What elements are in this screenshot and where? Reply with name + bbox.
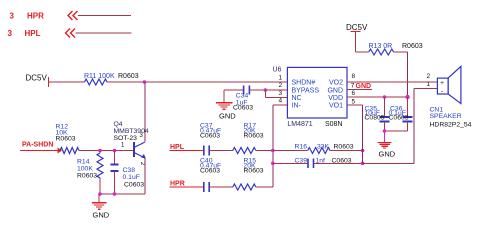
resistor R11 100K: [84, 73, 139, 85]
wire IN- to U6 pin4: [273, 104, 288, 106]
svg-text:5: 5: [352, 99, 356, 106]
svg-text:HPL: HPL: [170, 144, 185, 151]
capacitor C36 0.1uF: [389, 97, 413, 131]
U6 pin numbers: [279, 73, 356, 105]
svg-text:DC5V: DC5V: [346, 23, 368, 32]
svg-text:C0603: C0603: [124, 181, 144, 188]
power port DC5V (top): [346, 23, 368, 32]
resistor R17 20K: [233, 122, 264, 153]
ground under C34: [216, 90, 237, 121]
svg-text:3: 3: [279, 90, 283, 97]
wire R16 left: [273, 150, 308, 152]
capacitor C40 0.47uF: [200, 157, 221, 192]
svg-text:6: 6: [352, 90, 356, 97]
wire speaker pin1 up: [413, 89, 415, 164]
svg-text:C0603: C0603: [200, 167, 220, 174]
svg-text:R0603: R0603: [56, 136, 76, 143]
svg-text:1: 1: [279, 75, 283, 82]
svg-text:BYPASS: BYPASS: [292, 87, 320, 94]
port HPR: [10, 11, 132, 21]
transistor Q4 MMBT3904: [114, 121, 149, 166]
wire R15 to IN- node: [256, 186, 273, 188]
junction C39/VO1: [361, 162, 365, 166]
svg-text:U6: U6: [273, 67, 282, 74]
wire IN- vertical node: [272, 105, 274, 187]
wire BYPASS to U6 pin2: [265, 89, 287, 91]
svg-text:C38: C38: [123, 167, 136, 174]
svg-text:R0603: R0603: [77, 172, 97, 179]
wire to U6 pin3: [265, 96, 287, 98]
wire DC5V to R11: [49, 81, 85, 83]
speaker CN1: [427, 66, 472, 128]
resistor R12 10K: [56, 123, 80, 153]
wire cap bottoms: [385, 130, 408, 132]
wire VO2 pin8 to speaker pin2: [347, 81, 437, 83]
svg-text:SOT-23: SOT-23: [114, 135, 138, 142]
svg-text:R0603: R0603: [244, 167, 264, 174]
svg-text:R11 100K: R11 100K: [84, 73, 115, 80]
svg-text:C0603: C0603: [389, 115, 409, 122]
wire R12 to Q4 base: [79, 150, 133, 152]
port HPL: [8, 29, 132, 39]
wire Q4 collector up to SHDN net: [144, 82, 146, 142]
svg-text:PA-SHDN: PA-SHDN: [22, 142, 53, 149]
junction R16/VO1: [361, 149, 365, 153]
svg-text:C0603: C0603: [332, 158, 352, 165]
ground under C35/C36: [378, 131, 396, 159]
junction C35 top: [383, 95, 387, 99]
wire VO1 pin5: [347, 104, 363, 106]
svg-text:SPEAKER: SPEAKER: [430, 113, 462, 120]
wire VDD pin6 row: [347, 96, 408, 98]
svg-text:3: 3: [10, 12, 15, 21]
wire Q4 emitter down: [144, 158, 146, 194]
svg-text:VO2: VO2: [329, 80, 343, 87]
svg-text:1: 1: [427, 81, 431, 88]
junction R14 bottom: [98, 192, 102, 196]
wire PA-SHDN to R12: [20, 150, 60, 152]
svg-text:C0603: C0603: [200, 132, 220, 139]
svg-text:7: 7: [351, 83, 355, 90]
resistor R14 100K (vertical): [77, 151, 103, 195]
wire to speaker pin1: [414, 88, 437, 90]
ground under R14: [92, 194, 110, 219]
svg-text:C0805: C0805: [365, 115, 385, 122]
svg-text:R0603: R0603: [402, 43, 423, 50]
svg-text:0.1uF: 0.1uF: [123, 174, 140, 181]
svg-text:GND: GND: [93, 210, 110, 219]
junction IN-/C39: [271, 162, 275, 166]
svg-text:4: 4: [279, 97, 283, 104]
capacitor C35 10uF: [365, 97, 390, 131]
svg-text:MMBT3904: MMBT3904: [114, 128, 149, 135]
svg-text:GND: GND: [379, 150, 396, 159]
svg-text:2: 2: [279, 82, 283, 89]
svg-text:3: 3: [8, 29, 13, 38]
wire R13 to VDD corner: [394, 51, 408, 53]
wire gnd row under Q4: [100, 193, 145, 195]
op-amp U6 LM4871: [273, 67, 348, 129]
svg-text:S08N: S08N: [325, 121, 343, 128]
svg-text:R0603: R0603: [118, 73, 139, 80]
svg-text:SHDN#: SHDN#: [292, 80, 316, 87]
svg-text:HPR: HPR: [170, 180, 185, 187]
svg-text:GND: GND: [356, 83, 372, 90]
capacitor C39 1nf: [273, 158, 363, 169]
resistor R15 20K: [233, 157, 264, 190]
wire pin7 GND stub: [347, 89, 372, 91]
svg-text:DC5V: DC5V: [26, 74, 48, 83]
resistor R16 33K: [295, 143, 354, 153]
wire R17 to IN- node: [256, 150, 273, 152]
svg-text:NC: NC: [292, 95, 302, 102]
svg-text:1nf: 1nf: [316, 158, 326, 165]
svg-text:HDR82P2_54: HDR82P2_54: [430, 121, 472, 128]
junction IN-/R17/R16: [271, 149, 275, 153]
wire R13 net down to VDD: [407, 52, 409, 97]
junction gnd stub: [383, 129, 387, 133]
svg-text:C39: C39: [295, 158, 308, 165]
junction C38 bottom: [113, 192, 117, 196]
junction at R11/Q4 collector: [143, 80, 147, 84]
capacitor C37 0.47uF: [200, 122, 221, 155]
wire NC tie down: [264, 90, 266, 97]
svg-text:R0603: R0603: [244, 132, 264, 139]
junction C36/R13: [405, 95, 409, 99]
net label PA-SHDN: [22, 142, 62, 154]
wire feedback to speaker: [363, 162, 414, 164]
wire C40 to R15: [209, 186, 233, 188]
wire DC5V down: [355, 32, 357, 53]
svg-text:C0603: C0603: [233, 105, 253, 112]
svg-text:HPL: HPL: [25, 29, 41, 38]
capacitor C38 0.1uF: [111, 151, 145, 195]
wire R11 to U6 pin1 (SHDN net): [107, 81, 287, 83]
svg-text:R16: R16: [295, 143, 308, 150]
wire HPR stub: [170, 186, 204, 188]
power port DC5V (left): [26, 74, 49, 88]
junction C38 top: [113, 149, 117, 153]
svg-text:2: 2: [427, 73, 431, 80]
capacitor C34 1uF: [224, 86, 265, 112]
svg-text:33K: 33K: [317, 143, 330, 150]
svg-text:VDD: VDD: [328, 95, 343, 102]
junction BYPASS/NC tie: [264, 88, 268, 92]
svg-text:IN-: IN-: [292, 103, 302, 110]
svg-text:GND: GND: [327, 87, 343, 94]
svg-text:VO1: VO1: [329, 103, 343, 110]
wire R16 right: [330, 150, 363, 152]
wire HPL stub: [170, 150, 204, 152]
svg-text:GND: GND: [219, 112, 236, 121]
svg-text:HPR: HPR: [27, 12, 44, 21]
resistor R13 0R: [369, 43, 423, 55]
svg-text:R13 0R: R13 0R: [369, 43, 393, 50]
junction R14 top: [98, 149, 102, 153]
wire VO1 down: [362, 105, 364, 163]
svg-text:Q4: Q4: [114, 121, 123, 128]
svg-text:100K: 100K: [77, 165, 93, 172]
wire C37 to R17: [209, 150, 233, 152]
wire DC5V to R13: [356, 51, 369, 53]
svg-text:+: +: [440, 80, 444, 87]
svg-text:8: 8: [352, 73, 356, 80]
svg-text:LM4871: LM4871: [287, 121, 312, 128]
svg-text:R0603: R0603: [334, 143, 354, 150]
